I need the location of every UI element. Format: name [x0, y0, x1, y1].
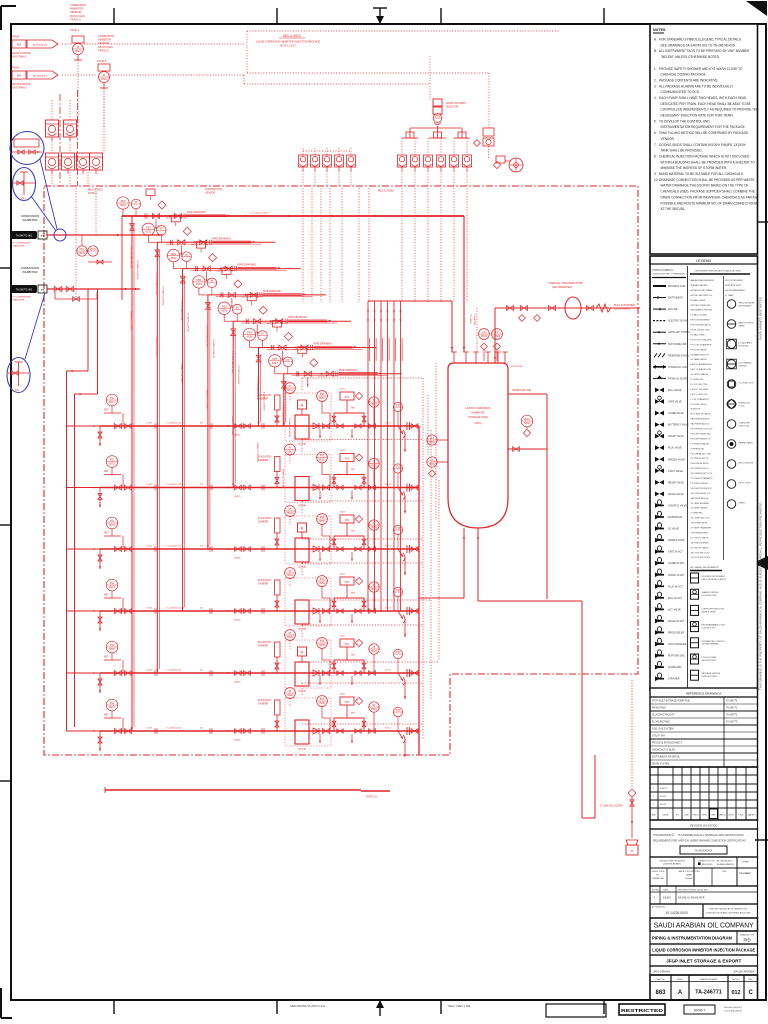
cascade step 4 mini relief box [222, 268, 231, 275]
svg-text:6545: 6545 [287, 635, 293, 639]
svg-text:CHEMICAL INJECTION PACKAGE WHI: CHEMICAL INJECTION PACKAGE WHICH IS NOT … [659, 155, 750, 159]
svg-text:PIPE DRAINING: PIPE DRAINING [314, 343, 333, 346]
svg-text:PPC32: PPC32 [166, 218, 174, 220]
svg-text:PI: PI [373, 645, 376, 649]
train 1 drop to drain header [404, 434, 406, 452]
svg-text:JFGP INLET STORAGE & EXPORT: JFGP INLET STORAGE & EXPORT [666, 959, 741, 964]
pump vendor dotted enclosure 2 [285, 455, 331, 503]
svg-text:MOV MTR OP VALVE: MOV MTR OP VALVE [691, 413, 712, 416]
svg-text:PY PRESS RELAY: PY PRESS RELAY [691, 482, 709, 485]
svg-text:DAMPER: DAMPER [258, 459, 269, 462]
svg-text:PLUG W/ ACT: PLUG W/ ACT [668, 585, 683, 588]
svg-text:PIPING P&ID: PIPING P&ID [652, 708, 666, 710]
tank side dashed gauge line [435, 363, 437, 520]
svg-text:3/4"x1": 3/4"x1" [385, 484, 392, 486]
cascade step 2 flange ticks [169, 240, 171, 245]
svg-text:DRAIN CONNECTION FROM INDIVIDU: DRAIN CONNECTION FROM INDIVIDUAL CHEMICA… [661, 195, 757, 199]
chemical transfer pump [565, 297, 581, 319]
svg-text:PG: PG [110, 643, 114, 647]
svg-text:DATE: DATE [663, 889, 669, 892]
revision statement [650, 829, 758, 857]
svg-text:FE FLOW ELEMENT: FE FLOW ELEMENT [691, 320, 711, 322]
svg-text:LS: LS [482, 330, 486, 334]
svg-text:863: 863 [17, 43, 22, 47]
train 3 main suction/discharge line [100, 548, 419, 550]
svg-text:PSV: PSV [345, 644, 350, 646]
svg-text:TG TEMP GAUGE: TG TEMP GAUGE [691, 507, 709, 510]
cascade step 1 flange ticks [144, 213, 146, 218]
svg-text:012: 012 [732, 990, 741, 996]
air branch terminal boxes [406, 132, 466, 138]
overflow return with valve [508, 448, 547, 450]
svg-text:HIGHER LEVEL: HIGHER LEVEL [702, 611, 717, 613]
svg-text:10-14229-0003: 10-14229-0003 [665, 911, 688, 915]
svg-text:1"-CI-6566-1C22: 1"-CI-6566-1C22 [166, 728, 182, 730]
markup cloud 1 (blue) [10, 132, 44, 165]
svg-text:TA-246770: TA-246770 [726, 700, 738, 703]
svg-text:PDI: PDI [121, 199, 126, 203]
svg-text:INHIBITOR: INHIBITOR [98, 38, 111, 42]
svg-text:CORROSION: CORROSION [98, 34, 114, 38]
svg-text:DRAINAGE CONNECTION SHALL BE P: DRAINAGE CONNECTION SHALL BE PROVIDED AS… [659, 178, 755, 182]
train 1 outlet sample bubble [393, 402, 402, 411]
feed header drop A [87, 289, 89, 371]
svg-text:1"-CI-6562-1C22: 1"-CI-6562-1C22 [166, 484, 182, 486]
cascade riser 2 [156, 242, 158, 673]
svg-text:HV HAND VALVE: HV HAND VALVE [691, 358, 708, 361]
marked assembly inside cloud 1 [12, 139, 42, 154]
svg-text:NET: NET [351, 531, 356, 533]
svg-text:DCS SHARED: DCS SHARED [739, 362, 753, 365]
svg-text:CORROSION: CORROSION [70, 3, 86, 7]
cascade step 3 drain valve [203, 266, 210, 271]
svg-text:FROM: FROM [12, 67, 19, 70]
cascade step 3 flange ticks [195, 266, 197, 271]
instrument FI train 1 [70, 29, 84, 60]
cascade step 3 junction arrows [196, 267, 199, 270]
markup cloud 2 (blue) [13, 168, 36, 201]
svg-text:DPI DIFF PRESS IND: DPI DIFF PRESS IND [691, 305, 712, 307]
train 5 suction isolation valves [114, 670, 121, 675]
svg-text:6514: 6514 [371, 587, 377, 591]
cascade step 2 root valve [155, 250, 160, 257]
train 1 suction gauge [106, 394, 118, 406]
svg-text:PSV DISCHARGE LINE: PSV DISCHARGE LINE [180, 299, 183, 322]
svg-text:6537: 6537 [272, 361, 278, 365]
cascade step 6 drain stub [282, 351, 284, 361]
svg-text:LT LVL TRANSMTR: LT LVL TRANSMTR [691, 398, 710, 401]
svg-text:PI: PI [289, 689, 292, 693]
svg-text:PIC PRESS IND CTRL: PIC PRESS IND CTRL [691, 453, 713, 455]
cascade step 2 drain valve [178, 240, 185, 245]
storage tank TK-6501 [448, 363, 508, 528]
legend piping symbol rows [653, 286, 690, 681]
svg-text:PG: PG [110, 396, 114, 400]
svg-text:TE TEMP ELEMENT: TE TEMP ELEMENT [691, 503, 711, 505]
svg-text:INTERLOCK: INTERLOCK [739, 403, 751, 405]
svg-text:WATER DRAINAGE PHILOSOPHY BAS: WATER DRAINAGE PHILOSOPHY BASED ON THE T… [661, 184, 749, 188]
svg-text:PG PRESS GAUGE: PG PRESS GAUGE [691, 442, 710, 445]
corner registration mark bottom-left [1, 988, 12, 1018]
train 3 flange ticks [155, 546, 264, 552]
svg-text:TO SAFE LOCATION: TO SAFE LOCATION [187, 313, 190, 333]
train 3 discharge valve [322, 546, 329, 551]
border tick marks bottom [114, 1000, 604, 1014]
svg-text:NECESSARY INJECTION RATE FOR T: NECESSARY INJECTION RATE FOR THAT TRAIN. [661, 114, 734, 118]
train 4 drop to drain header [404, 619, 406, 637]
air supply drops to trains (dotted) [302, 378, 439, 740]
svg-text:NET: NET [351, 469, 356, 471]
train 1 inlet drain [99, 426, 101, 446]
utility station regulator pair [474, 128, 494, 158]
svg-text:UV UTILITY VALVE: UV UTILITY VALVE [691, 536, 709, 539]
train 3 air signal dotted [301, 501, 303, 514]
train 1 air signal dotted [301, 378, 303, 391]
train 1 drain hook [398, 426, 405, 438]
svg-text:LOGIC: LOGIC [739, 405, 746, 407]
cascade step 3 drain stub [206, 272, 208, 282]
svg-text:INSTRUMENT: INSTRUMENT [739, 305, 753, 307]
pump vendor dotted enclosure 6 [285, 698, 331, 746]
train 5 dampener outlet valve [369, 671, 376, 676]
svg-text:SOFTWARE LINK: SOFTWARE LINK [668, 343, 687, 346]
svg-text:(AIR OPERATED): (AIR OPERATED) [552, 286, 572, 289]
svg-text:1"x3/4": 1"x3/4" [146, 423, 153, 425]
legend header [650, 256, 758, 264]
train 2 head gauge [285, 444, 296, 455]
tank level instrument LG [427, 395, 448, 477]
svg-text:LSL LVL SW LOW: LSL LVL SW LOW [691, 394, 708, 396]
svg-text:6511: 6511 [371, 402, 377, 406]
svg-text:FC FAIL CLOSED: FC FAIL CLOSED [691, 314, 708, 317]
cascade step 6 second bubble [258, 331, 268, 341]
motor M for pump 3 [298, 523, 307, 532]
svg-text:DRAWING NUMBER: DRAWING NUMBER [700, 978, 718, 981]
underground drain line note 10 [105, 789, 361, 791]
cascade step 4 root valve [206, 303, 211, 310]
signal line across to manifold [110, 74, 244, 76]
svg-text:DRAWING TYPE: DRAWING TYPE [740, 933, 755, 936]
train 4 outlet sample bubble [393, 587, 402, 596]
tank fill line [494, 308, 496, 363]
marked assembly inside cloud 3 [8, 362, 29, 392]
svg-text:2"-CI-6501-1C22PU: 2"-CI-6501-1C22PU [250, 213, 269, 215]
motor M for pump 5 [298, 647, 307, 656]
train 4 outlet gauge [369, 582, 379, 592]
svg-text:LIQUID CORROSION INHIBITOR INJ: LIQUID CORROSION INHIBITOR INJECTION PAC… [256, 41, 321, 44]
drawing type band [650, 931, 758, 944]
svg-text:ANGLE VALVE: ANGLE VALVE [668, 493, 684, 496]
svg-text:BDV BLOWDOWN VLV: BDV BLOWDOWN VLV [691, 295, 713, 297]
svg-text:P.E STAMP: P.E STAMP [739, 872, 751, 875]
svg-text:6555: 6555 [319, 643, 325, 647]
svg-text:FROM FILTRATE: FROM FILTRATE [12, 52, 31, 55]
svg-text:PT PRESS TRANSMTR: PT PRESS TRANSMTR [691, 477, 714, 480]
svg-text:PAL PRESS ALM LO: PAL PRESS ALM LO [691, 423, 711, 426]
svg-text:(DESIGN AGENT): (DESIGN AGENT) [663, 863, 681, 866]
svg-text:6574: 6574 [109, 585, 115, 589]
svg-text:ACT. VALVE: ACT. VALVE [668, 608, 681, 611]
cascade step 5 mini relief box [247, 294, 256, 301]
package title band [650, 944, 758, 955]
svg-text:FUEL GAS SYSTEM: FUEL GAS SYSTEM [652, 728, 673, 731]
svg-text:SIS FUNCTION: SIS FUNCTION [702, 660, 717, 662]
cascade step 6 spec diamond [285, 333, 293, 341]
svg-text:ELEC: ELEC [729, 815, 735, 817]
feed control bubble cluster [77, 235, 112, 264]
svg-text:HYDRAULIC LINK: HYDRAULIC LINK [668, 366, 687, 369]
drawing number row [650, 975, 758, 1000]
svg-text:THIS DRAWING IS THE PROPERTY O: THIS DRAWING IS THE PROPERTY OF SAUDI AR… [759, 501, 763, 690]
svg-text:PIT PRESS IND TX: PIT PRESS IND TX [691, 458, 710, 460]
svg-text:2"-CMS-931-1C22PU: 2"-CMS-931-1C22PU [600, 805, 623, 808]
svg-text:PSV: PSV [345, 459, 350, 461]
svg-text:8.: 8. [654, 155, 657, 159]
metering pump 2 [295, 477, 309, 501]
svg-text:SHARED DISPLAY: SHARED DISPLAY [702, 591, 720, 594]
svg-text:6542: 6542 [287, 450, 293, 454]
svg-text:NET: NET [351, 408, 356, 410]
svg-text:(6561): (6561) [234, 435, 241, 437]
svg-text:CREATE FOR "DP" OR DESIGN AGCY: CREATE FOR "DP" OR DESIGN AGCY [698, 860, 734, 863]
svg-text:PILOT LIGHT: PILOT LIGHT [739, 483, 752, 485]
svg-text:CONTROL VALVE: CONTROL VALVE [668, 504, 687, 507]
train 2 relief bypass loop [334, 475, 364, 488]
metering pump 1 [295, 415, 309, 439]
svg-text:CONTROLLED INDEPENDENTLY AS RE: CONTROLLED INDEPENDENTLY AS REQUIRED TO … [661, 108, 759, 112]
svg-text:LSH LVL SW HIGH: LSH LVL SW HIGH [691, 389, 709, 391]
cascade step 7 root valve [281, 381, 286, 388]
svg-text:LG: LG [430, 458, 434, 462]
train 1 mid isolation valves [235, 424, 242, 429]
svg-text:DOSING SKIDS SHALL CONTAIN 5X1: DOSING SKIDS SHALL CONTAIN 5X100% PUMPS,… [659, 143, 746, 147]
node: corrosion inhibitor demand ratio gas train 2 label [98, 34, 114, 52]
svg-text:VACUUM RELIEF: VACUUM RELIEF [668, 643, 687, 646]
corner registration mark top-right [746, 1, 767, 16]
svg-text:SHT NO.: SHT NO. [732, 979, 740, 981]
svg-text:B.: B. [654, 49, 657, 53]
svg-text:ZSC POS SW CLSD: ZSC POS SW CLSD [691, 552, 710, 554]
cascade step 3 root valve [180, 276, 185, 283]
svg-text:3/4": 3/4" [200, 423, 204, 425]
svg-text:DRAIN TO CLOSED: DRAIN TO CLOSED [130, 311, 133, 330]
plant title band [650, 955, 758, 966]
svg-text:LOCATION: LOCATION [473, 314, 476, 325]
svg-text:(6565): (6565) [234, 682, 241, 684]
svg-text:(6562): (6562) [234, 496, 241, 498]
border tick marks left [0, 268, 11, 781]
svg-text:PDI: PDI [272, 357, 277, 361]
svg-text:NET: NET [104, 533, 109, 535]
cascade step 1 gauge bubble [117, 197, 129, 209]
train 5 discharge gauge [317, 638, 328, 649]
svg-text:EACH PUMP SHALL HAVE TWO HEADS: EACH PUMP SHALL HAVE TWO HEADS, WITH EAC… [659, 96, 747, 100]
cascade step 1 second valve [174, 213, 181, 218]
train 3 suction gauge [106, 517, 118, 529]
suction header top [122, 215, 464, 217]
svg-text:BALL W/ ACT: BALL W/ ACT [668, 597, 683, 600]
svg-text:PDI: PDI [222, 304, 227, 308]
approval by/date rows [650, 886, 758, 904]
svg-text:3/4": 3/4" [200, 484, 204, 486]
svg-text:PROJ/PROPONENT ORGN. APP.: PROJ/PROPONENT ORGN. APP. [678, 889, 709, 892]
overflow MOV bubble [521, 415, 533, 427]
metering pump 4 [295, 600, 309, 624]
svg-text:RESTRICTED: RESTRICTED [621, 1008, 663, 1013]
svg-text:AIT ANLZR IND TRANS: AIT ANLZR IND TRANS [691, 289, 714, 292]
svg-text:INSTRUMENT AIR DETAIL: INSTRUMENT AIR DETAIL [652, 756, 681, 759]
svg-text:PI: PI [289, 507, 292, 511]
tank label [465, 406, 490, 425]
svg-text:TIC TEMP IND CTRL: TIC TEMP IND CTRL [691, 518, 711, 520]
svg-text:FOR STANDARD SYMBOLS,LEGEND,TY: FOR STANDARD SYMBOLS,LEGEND,TYPICAL DETA… [659, 38, 741, 42]
train 3 seal pot stubs [319, 552, 321, 561]
svg-text:INDEX: INDEX [677, 979, 684, 981]
svg-text:PSV DISCHARGE LINE: PSV DISCHARGE LINE [130, 246, 133, 269]
svg-text:INSTRUMENTATION REQUIREMENT FO: INSTRUMENTATION REQUIREMENT FOR THE PACK… [661, 125, 746, 129]
svg-text:3/4": 3/4" [21, 197, 25, 200]
svg-text:6535: 6535 [221, 308, 227, 312]
train 4 outlet valve to header [411, 609, 418, 614]
svg-text:WH W/ HANDWHEEL: WH W/ HANDWHEEL [725, 289, 746, 292]
svg-text:PPC32: PPC32 [293, 350, 301, 352]
cascade riser 3 [182, 269, 184, 611]
cascade step 5 flange ticks [245, 319, 247, 324]
svg-text:INHIBITOR: INHIBITOR [70, 7, 83, 11]
svg-text:FROM: FROM [12, 36, 19, 39]
svg-text:6534: 6534 [196, 282, 202, 286]
svg-text:A/B: A/B [41, 235, 45, 238]
svg-text:6543: 6543 [287, 511, 293, 515]
svg-text:INSPECTION RECORD: INSPECTION RECORD [678, 871, 700, 873]
svg-text:PSH PRESS SW HI: PSH PRESS SW HI [691, 463, 710, 465]
svg-text:CONSTRUCTION AND CERTIFIED AS: CONSTRUCTION AND CERTIFIED AS NOTED [705, 912, 751, 915]
svg-text:DCS FUNCTION: DCS FUNCTION [702, 595, 718, 597]
cascade step 1 root valve [130, 224, 135, 231]
svg-text:PPC32: PPC32 [217, 271, 225, 273]
corrosion inhibitor feed connector 1 [11, 214, 47, 248]
svg-text:3/4"x1": 3/4"x1" [385, 546, 392, 548]
svg-text:PIPE DRAINING: PIPE DRAINING [288, 316, 307, 319]
svg-text:PCV: PCV [435, 114, 441, 118]
svg-text:SAUDI ARABIAN OIL COMPANY: SAUDI ARABIAN OIL COMPANY [654, 921, 754, 930]
cascade step 2 junction arrows [170, 241, 173, 244]
drain drop to sump [581, 601, 583, 818]
svg-text:PI: PI [289, 446, 292, 450]
tank level transmitter [427, 435, 448, 445]
svg-text:FI: FI [77, 45, 80, 49]
cascade step 1 second bubble [131, 199, 141, 209]
svg-text:REQUIRED: REQUIRED [702, 864, 713, 866]
train 6 suction isolation valves [114, 728, 121, 733]
cascade step 5 second valve [276, 319, 283, 324]
train 2 inlet drain [99, 488, 101, 508]
feed junction circled (blue) [54, 229, 66, 241]
svg-text:DRAFT: DRAFT [694, 1009, 705, 1013]
svg-text:DRAIN SYSTEM: DRAIN SYSTEM [652, 763, 669, 766]
svg-text:FLAME ARR.: FLAME ARR. [668, 666, 682, 669]
pump vendor dotted enclosure 3 [285, 516, 331, 564]
location band [650, 966, 758, 975]
svg-text:RATIO (GAS: RATIO (GAS [70, 14, 85, 18]
svg-text:TA-246840-001: TA-246840-001 [32, 44, 48, 47]
right border arrow marker [753, 556, 768, 570]
svg-text:PLUG VALVE: PLUG VALVE [668, 447, 682, 450]
svg-text:PI PRESS IND: PI PRESS IND [691, 448, 705, 450]
train 5 outlet gauge [369, 644, 379, 654]
svg-text:OVERFLOW LINE: OVERFLOW LINE [512, 390, 531, 392]
svg-text:MOUNTED: MOUNTED [739, 345, 750, 347]
train 6 relief bypass loop [334, 718, 364, 731]
train 3 dampener outlet valve [369, 547, 376, 552]
train 6 mid isolation valves [235, 729, 242, 734]
tank outlet left [463, 528, 465, 598]
svg-text:CHECK W/ ACT: CHECK W/ ACT [668, 574, 685, 577]
fill line valves [506, 305, 593, 310]
header junction arrows on top header [157, 215, 420, 218]
svg-text:NET: NET [104, 410, 109, 412]
svg-text:LEGEND: LEGEND [696, 259, 711, 263]
train 5 spec break [406, 669, 408, 677]
svg-text:LOCAL PANEL: LOCAL PANEL [739, 342, 753, 345]
svg-text:TA-246771: TA-246771 [695, 990, 722, 996]
draft stamp [684, 1005, 715, 1014]
svg-text:(6564): (6564) [234, 620, 241, 622]
svg-text:PG: PG [320, 392, 324, 396]
svg-text:6573: 6573 [109, 523, 115, 527]
dashed link from boundary into cascade [121, 216, 123, 235]
cascade riser 6 [258, 348, 260, 427]
train 4 inlet drain [99, 611, 101, 631]
svg-text:PI: PI [289, 569, 292, 573]
svg-text:JAN GRAHA: JAN GRAHA [653, 969, 670, 973]
svg-text:863-U-3002: 863-U-3002 [378, 189, 394, 193]
train 2 drain hook [398, 488, 405, 500]
train 3 drain hook [398, 549, 405, 561]
svg-text:1"x3/4": 1"x3/4" [146, 728, 153, 730]
train 5 seal pot stubs [319, 676, 321, 685]
svg-text:3/4": 3/4" [200, 670, 204, 672]
svg-text:PSV: PSV [345, 397, 350, 399]
svg-text:DAMPER: DAMPER [258, 702, 269, 705]
svg-text:REF: REF [711, 815, 716, 817]
svg-text:TI TEMP IND: TI TEMP IND [691, 513, 704, 515]
svg-text:PCV PRESS CTRL VLV: PCV PRESS CTRL VLV [691, 429, 713, 431]
svg-text:PID: PID [744, 938, 751, 943]
company name band [650, 918, 758, 931]
train 6 outlet sample bubble [393, 707, 402, 716]
svg-text:ALL PACKAGE ALARMS ARE TO BE I: ALL PACKAGE ALARMS ARE TO BE INDIVIDUALL… [659, 84, 734, 88]
svg-text:6544: 6544 [287, 573, 293, 577]
train 4 dampener outlet valve [369, 609, 376, 614]
svg-text:TRAIN 1): TRAIN 1) [70, 17, 81, 21]
svg-text:PG: PG [320, 515, 324, 519]
svg-text:TANK SHALL BE PROVIDED.: TANK SHALL BE PROVIDED. [661, 149, 703, 153]
train 4 main suction/discharge line [100, 610, 419, 612]
svg-text:6516: 6516 [371, 707, 377, 711]
svg-text:REVISION VALIDATION: REVISION VALIDATION [690, 824, 717, 827]
cascade step 6 second valve [301, 345, 308, 350]
pump vendor dotted enclosure 5 [285, 640, 331, 688]
svg-text:STABILIZER: STABILIZER [12, 245, 25, 248]
train 4 seal pot stubs [319, 614, 321, 623]
legend abbreviation list col B top rows [725, 280, 746, 297]
cascade step 1 junction arrows [145, 215, 148, 218]
svg-text:6533: 6533 [171, 256, 177, 260]
dash-dot stubs above filter array [59, 94, 61, 186]
cascade riser 5 [232, 321, 234, 487]
train 5 relief bypass loop [334, 660, 364, 673]
